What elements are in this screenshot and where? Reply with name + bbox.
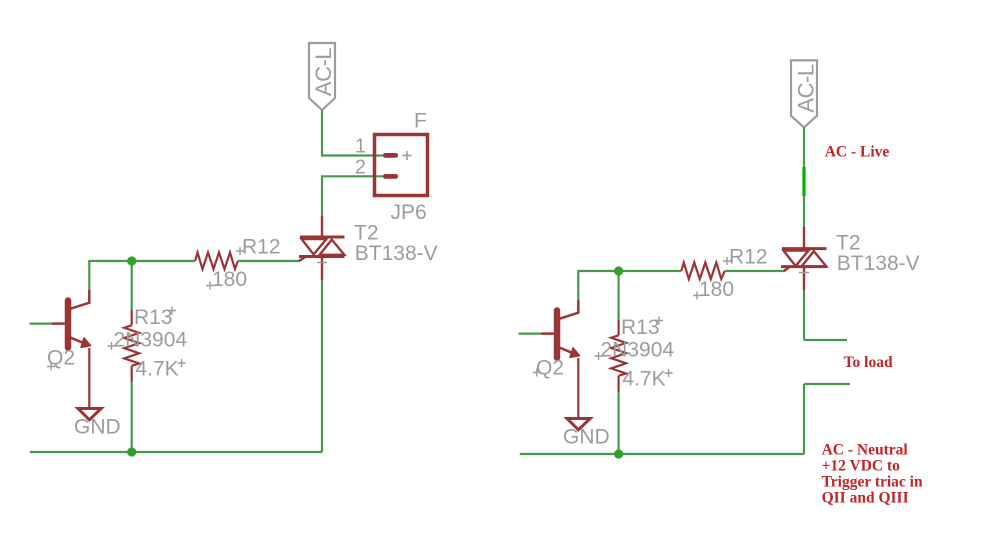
svg-text:Q2: Q2 <box>536 357 564 380</box>
svg-text:+12 VDC to: +12 VDC to <box>822 457 901 474</box>
svg-text:2N3904: 2N3904 <box>114 329 188 352</box>
svg-text:R13: R13 <box>621 316 660 339</box>
svg-text:4.7K: 4.7K <box>622 367 665 390</box>
svg-text:F: F <box>414 110 427 133</box>
svg-text:BT138-V: BT138-V <box>355 242 438 265</box>
svg-text:GND: GND <box>74 416 121 439</box>
svg-text:2: 2 <box>355 157 366 179</box>
svg-text:QII and QIII: QII and QIII <box>822 489 909 506</box>
svg-text:180: 180 <box>212 268 247 291</box>
svg-text:JP6: JP6 <box>391 201 427 224</box>
svg-text:R13: R13 <box>134 306 173 329</box>
svg-text:4.7K: 4.7K <box>135 357 178 380</box>
svg-text:To load: To load <box>844 354 893 371</box>
svg-text:AC-L: AC-L <box>311 48 336 96</box>
svg-text:AC-L: AC-L <box>794 64 819 112</box>
svg-text:1: 1 <box>355 136 366 158</box>
svg-text:R12: R12 <box>242 235 281 258</box>
svg-text:AC - Live: AC - Live <box>825 144 890 161</box>
svg-text:BT138-V: BT138-V <box>837 252 920 275</box>
svg-text:Trigger triac in: Trigger triac in <box>822 474 923 491</box>
svg-text:R12: R12 <box>729 245 768 268</box>
svg-text:GND: GND <box>563 426 610 449</box>
svg-text:AC - Neutral: AC - Neutral <box>822 441 909 458</box>
svg-text:180: 180 <box>699 278 734 301</box>
svg-text:2N3904: 2N3904 <box>601 339 675 362</box>
